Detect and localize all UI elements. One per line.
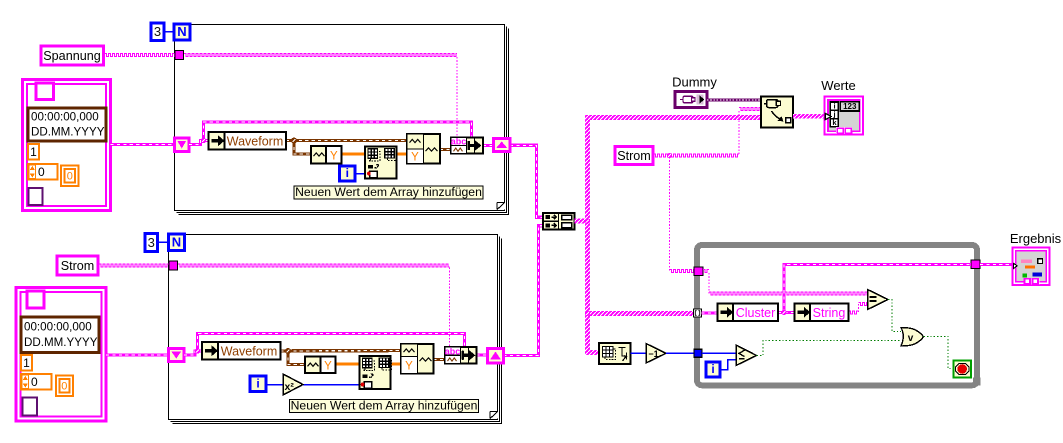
wire: i via x^2 to array node (loop 2) — [266, 384, 361, 386]
wire: string out of loop 1 — [483, 145, 543, 217]
svg-text:N: N — [177, 24, 186, 39]
for-loop 2 loop count terminal N — [169, 234, 185, 251]
label: Werte — [821, 78, 855, 93]
node: Build Waveform (loop 2) — [401, 344, 434, 374]
junction: array wire at build array output — [585, 219, 590, 224]
svg-text:Strom: Strom — [617, 149, 651, 163]
wire: equality to Or gate — [888, 300, 901, 332]
node: To Cluster conversion — [718, 304, 779, 322]
junction: Strom string wire — [667, 153, 672, 158]
numeric constant 3 (loop 2) — [145, 234, 158, 252]
svg-text:00:00:00,000: 00:00:00,000 — [24, 321, 92, 334]
svg-text:Werte: Werte — [821, 78, 855, 93]
svg-text:Y: Y — [411, 152, 419, 164]
wire: String node to equality — [849, 303, 868, 314]
svg-text:Neuen Wert dem Array hinzufüge: Neuen Wert dem Array hinzufügen — [291, 398, 478, 412]
control: Dummy (refnum) — [675, 92, 707, 108]
svg-text:Cluster: Cluster — [736, 306, 776, 320]
node: Build Array (merge loop outputs) — [543, 213, 575, 230]
tunnel: array into while loop (indexing) — [694, 309, 702, 317]
boolean element (cluster 1) — [36, 83, 54, 100]
node: Or gate — [901, 328, 924, 347]
svg-text:1: 1 — [23, 356, 30, 370]
svg-text:i: i — [346, 166, 349, 180]
string control Strom (middle) — [615, 147, 653, 165]
red coercion dot (loop 1 array input) — [367, 172, 371, 176]
free label: Neuen Wert dem Array hinzufuegen (loop 2) — [290, 398, 479, 412]
wire: Spannung string inside loop 1 — [184, 54, 457, 138]
wire: cluster inside loop 2 to Waveform node and top rail — [184, 334, 465, 356]
numeric element 0 with spinner (cluster 2) — [21, 374, 52, 390]
svg-text:0: 0 — [31, 375, 38, 389]
svg-text:0: 0 — [61, 381, 67, 393]
svg-text:1: 1 — [30, 145, 37, 159]
wire: orange Y array (loop 1) — [342, 153, 408, 156]
wire: Strom string inside loop 2 — [178, 264, 450, 347]
svg-text:−1: −1 — [648, 349, 658, 359]
node: Build Waveform (loop 1) — [407, 134, 440, 164]
svg-text:Y: Y — [324, 361, 332, 373]
node: Replace Array Subset (loop 2) — [360, 356, 392, 389]
indicator terminal: Werte (array of clusters) — [825, 97, 864, 135]
loop condition terminal (stop) — [954, 361, 972, 378]
svg-text:DD.MM.YYYY: DD.MM.YYYY — [31, 126, 105, 139]
free label: Neuen Wert dem Array hinzufuegen (loop 1) — [294, 185, 483, 199]
tunnel: Strom into loop 2 — [169, 261, 178, 270]
svg-text:Spannung: Spannung — [43, 49, 100, 63]
svg-text:abc: abc — [445, 346, 461, 356]
svg-text:i: i — [256, 377, 259, 391]
tunnel: count into while loop (blue) — [694, 349, 702, 357]
junction: waveform wire loop 2 — [285, 348, 291, 354]
indicator terminal: Ergebnis (cluster) — [1013, 248, 1050, 286]
svg-text:3: 3 — [148, 235, 155, 250]
svg-text:123: 123 — [843, 102, 857, 111]
wire: cluster inside loop 1 to Waveform node and top rail — [189, 122, 472, 145]
svg-text:String: String — [813, 306, 846, 320]
wire: 3 to N (loop 1) — [164, 31, 174, 33]
numeric element 0 with spinner (cluster 1) — [28, 164, 58, 180]
for-loop 1 loop count terminal N — [174, 24, 190, 40]
wire: Spannung string to loop 1 tunnel — [105, 54, 176, 57]
svg-text:Strom: Strom — [61, 259, 95, 273]
iteration terminal i (loop 1) — [340, 166, 356, 181]
node: Array Size — [599, 343, 631, 364]
junction: cluster wire in while loop — [781, 310, 786, 315]
node: Equal? comparison — [868, 290, 889, 310]
node: Decrement (-1) — [646, 344, 666, 364]
wire: waveform to string conversion (loop 2) — [434, 358, 446, 361]
node: Replace Array Subset (loop 1) — [365, 147, 397, 179]
node: To String conversion — [795, 304, 849, 322]
wire: array size to decrement — [631, 352, 647, 354]
svg-text:i: i — [711, 362, 714, 376]
wire: cluster 2 to loop 2 tunnel — [106, 353, 169, 356]
attributes element (cluster 2) — [23, 398, 38, 416]
wire: string out of loop 2 — [477, 226, 544, 356]
svg-text:x²: x² — [285, 381, 295, 393]
cluster control 2 (waveform) frame — [16, 288, 106, 422]
label: Dummy — [672, 75, 717, 90]
svg-text:Y: Y — [405, 361, 413, 373]
boolean element (cluster 2) — [27, 291, 44, 308]
wire: cluster element to Cluster node — [702, 311, 718, 314]
tunnel: waveform cluster into loop 2 (down triangle) — [169, 349, 185, 362]
node: Get Waveform Components 'Waveform' (loop 2) — [202, 342, 281, 360]
iteration terminal i (loop 2) — [250, 376, 266, 392]
node: Get Waveform Components 'Waveform' (loop 1) — [209, 132, 287, 150]
wire: Dummy refnum to VI-server node — [707, 99, 761, 102]
tunnel: waveform cluster into loop 1 (down triangle) — [175, 138, 190, 152]
numeric element 1 (cluster 1) — [28, 144, 39, 160]
junction: array wire at while loop branch — [585, 311, 590, 316]
wire: Strom string to loop 2 tunnel — [99, 264, 169, 267]
node: square x^2 (loop 2) — [283, 374, 303, 395]
node: waveform-to-string + bundle (loop 2) — [445, 346, 477, 363]
wire: orange Y array (loop 2) — [336, 363, 402, 366]
tunnel: string into while loop — [694, 267, 703, 276]
wire: 3 to N (loop 2) — [158, 241, 169, 243]
wire: Or gate to stop terminal — [924, 337, 954, 369]
svg-text:00:00:00,000: 00:00:00,000 — [31, 111, 99, 124]
string control Spannung — [41, 46, 104, 65]
wire: Strom (middle) string branches — [654, 108, 762, 273]
numeric element 0 (grayed, cluster 1) — [61, 166, 79, 187]
attributes element (cluster 1) — [29, 188, 43, 205]
wire: Cluster node to String node and out rail — [778, 265, 971, 313]
label: Ergebnis — [1010, 231, 1062, 246]
svg-text:Dummy: Dummy — [672, 75, 717, 90]
wire: less-equal to Or gate — [757, 341, 902, 356]
svg-text:Neuen Wert dem Array hinzufüge: Neuen Wert dem Array hinzufügen — [295, 185, 482, 199]
wire: array of strings rail (build array to VI-server node, while loop, array size) — [575, 118, 762, 353]
tunnel: Spannung into loop 1 — [175, 51, 184, 60]
wire: decrement to while loop tunnel — [666, 352, 694, 354]
while loop frame (gray) — [697, 245, 981, 386]
for-loop 2 frame (Strom) — [169, 235, 502, 424]
cluster control 1 (waveform) frame — [23, 80, 111, 211]
junction: cluster wire loop 1 — [201, 138, 206, 143]
svg-text:Waveform: Waveform — [221, 345, 278, 359]
wire: waveform from Waveform node (loop 1) — [286, 141, 407, 155]
wire: i to array node (loop 1) — [355, 173, 369, 175]
svg-text:Y: Y — [330, 151, 338, 163]
wire: string inside while loop to equality — [703, 270, 868, 295]
svg-text:abc: abc — [451, 137, 467, 147]
node: waveform-to-string + bundle (loop 1) — [451, 137, 483, 154]
numeric element 0 (grayed, cluster 2) — [56, 376, 73, 397]
tunnel: string array out of loop 1 (up triangle) — [494, 139, 511, 152]
iteration terminal i (while loop) — [706, 362, 720, 377]
node: Get Waveform Y component (loop 1) — [311, 146, 342, 164]
numeric constant 3 (loop 1) — [151, 23, 164, 41]
wire: waveform to string conversion (loop 1) — [440, 148, 451, 151]
timestamp element (cluster 1) — [28, 108, 106, 141]
wire: values array to Werte indicator — [793, 114, 826, 119]
svg-text:3: 3 — [154, 24, 161, 39]
svg-text:Ergebnis: Ergebnis — [1010, 231, 1062, 246]
node: Get Waveform Y component (loop 2) — [305, 357, 336, 374]
node: Less or Equal? comparison — [736, 345, 757, 366]
svg-text:N: N — [172, 235, 181, 250]
svg-text:0: 0 — [38, 165, 45, 179]
wire: cluster 1 to loop 1 tunnel — [111, 143, 175, 146]
red coercion dot (loop 2 array input) — [361, 383, 365, 387]
wire: blue count to less-equal — [702, 352, 736, 354]
svg-text:DD.MM.YYYY: DD.MM.YYYY — [24, 336, 98, 349]
junction: waveform wire loop 1 — [291, 138, 297, 144]
node: Get Control Values by Index (VI server) — [761, 97, 793, 128]
string control Strom (left) — [57, 256, 98, 275]
svg-text:0: 0 — [67, 171, 73, 183]
for-loop 1 frame (Spannung) — [175, 25, 509, 215]
wire: i to less-equal — [720, 360, 736, 370]
junction: cluster wire loop 2 — [195, 348, 200, 353]
timestamp element (cluster 2) — [21, 317, 99, 353]
numeric element 1 (cluster 2) — [21, 355, 32, 371]
wire: waveform from Waveform node (loop 2) — [281, 351, 402, 365]
svg-text:Waveform: Waveform — [227, 135, 284, 149]
svg-text:v: v — [908, 333, 914, 344]
tunnel: cluster out of while loop — [971, 260, 980, 269]
wire: result cluster to Ergebnis indicator — [980, 263, 1013, 266]
tunnel: string array out of loop 2 (up triangle) — [488, 349, 504, 364]
